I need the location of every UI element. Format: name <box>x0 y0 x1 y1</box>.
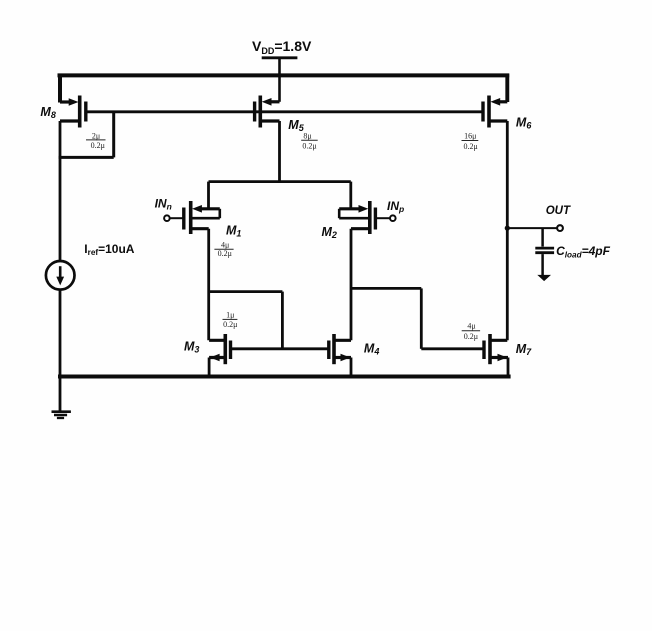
svg-text:4μ: 4μ <box>221 240 229 249</box>
svg-text:16μ: 16μ <box>464 132 476 141</box>
svg-text:M6: M6 <box>516 115 532 130</box>
wire OUT <box>507 227 557 229</box>
svg-text:M3: M3 <box>184 340 199 355</box>
svg-text:0.2μ: 0.2μ <box>223 320 237 329</box>
svg-text:M8: M8 <box>40 105 55 120</box>
wire M3 diode loop vertical to gate line <box>281 292 284 349</box>
svg-text:1μ: 1μ <box>226 310 234 319</box>
transistor M3 (NMOS mirror, diode-connected) <box>209 334 230 377</box>
value label 4u/0.2u for M7 <box>462 321 480 341</box>
wire M3 diode loop horizontal <box>209 290 283 293</box>
wire tail rail right drop to M2 source <box>349 182 352 209</box>
svg-text:M5: M5 <box>288 118 304 133</box>
svg-text:INp: INp <box>387 199 404 214</box>
wire tail rail left drop to M1 source <box>207 182 210 209</box>
wire M5 drain to tail rail <box>278 121 281 182</box>
wire M3-M4 gate line <box>231 347 329 350</box>
svg-text:OUT: OUT <box>546 205 571 217</box>
power VDD supply symbol <box>262 58 298 102</box>
value label 2u/0.2u for M8 <box>86 132 106 150</box>
transistor M2 (PMOS diff pair right) <box>339 201 390 234</box>
transistor M8 (PMOS, diode-connected) <box>60 96 86 128</box>
svg-text:0.2μ: 0.2μ <box>91 141 105 150</box>
svg-text:4μ: 4μ <box>467 321 475 330</box>
wire left rail M8 drain to current source <box>59 121 62 261</box>
wire diff pair tail rail <box>209 180 351 183</box>
transistor M4 (NMOS mirror output) <box>329 334 351 377</box>
transistor M7 (NMOS output stage) <box>484 334 508 377</box>
terminal INp input circle <box>390 215 396 221</box>
svg-text:VDD=1.8V: VDD=1.8V <box>252 38 312 56</box>
terminal OUT circle <box>557 225 563 231</box>
svg-text:INn: INn <box>155 197 172 212</box>
value label 4u/0.2u for M1 <box>214 240 233 258</box>
wire to M7 gate <box>421 347 484 350</box>
wire VDD rail right drop to M6 source <box>505 74 509 103</box>
svg-text:Cload=4pF: Cload=4pF <box>556 244 611 259</box>
wire M2 drain down to M4 drain <box>350 229 353 341</box>
svg-text:0.2μ: 0.2μ <box>302 141 316 150</box>
svg-text:Iref=10uA: Iref=10uA <box>84 242 134 257</box>
wire ground rail to earth symbol <box>59 377 62 412</box>
node OUT junction dot <box>505 226 510 231</box>
wire second stage branch horizontal <box>351 287 421 290</box>
wire M8 gate-drain diode loop <box>59 112 114 158</box>
value label 8u/0.2u for M5 <box>301 132 318 151</box>
wire output vertical M6 drain to M7 drain <box>506 121 509 340</box>
wire current source to ground rail <box>59 290 62 377</box>
svg-text:8μ: 8μ <box>303 132 311 141</box>
svg-text:M7: M7 <box>516 342 532 357</box>
wire VDD rail left drop to M8 source <box>58 74 62 103</box>
transistor M1 (PMOS diff pair left) <box>170 201 220 234</box>
wire second stage branch vertical <box>420 288 423 348</box>
capacitor Cload <box>535 228 554 275</box>
svg-text:0.2μ: 0.2μ <box>464 332 478 341</box>
transistor M6 (PMOS output stage) <box>483 96 507 128</box>
ground arrow under Cload <box>537 275 551 281</box>
value label 1u/0.2u for M3 <box>223 310 238 329</box>
wire M1 drain down to M3 drain <box>207 229 210 341</box>
current source Iref <box>46 261 75 290</box>
svg-text:M4: M4 <box>364 342 379 357</box>
svg-text:M1: M1 <box>226 224 241 239</box>
terminal INn input circle <box>164 215 170 221</box>
wire VDD top rail <box>58 73 510 77</box>
value label 16u/0.2u for M6 <box>462 132 479 151</box>
transistor M5 (PMOS tail current source) <box>255 96 280 128</box>
wire ground rail <box>58 375 511 379</box>
wire mirror gate line M8-M5-M6 <box>86 110 483 113</box>
svg-text:2μ: 2μ <box>92 132 100 141</box>
ground earth symbol <box>52 412 71 418</box>
svg-text:0.2μ: 0.2μ <box>218 249 232 258</box>
svg-text:M2: M2 <box>322 225 337 240</box>
svg-text:0.2μ: 0.2μ <box>463 142 477 151</box>
